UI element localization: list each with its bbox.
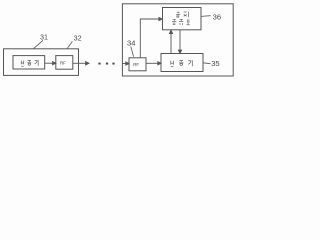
power supply box 36: [163, 8, 202, 30]
svg-text:RF: RF: [133, 62, 139, 67]
left device outer box: [4, 49, 79, 76]
svg-text:36: 36: [213, 12, 221, 21]
hangul text: decoder (box35): [171, 60, 193, 66]
wire: encoder to RF32 arrow: [45, 62, 54, 64]
encoder box 31: [13, 56, 45, 69]
svg-text:RF: RF: [60, 60, 66, 65]
hangul text: power (box36 line1): [176, 12, 188, 17]
wire: box36 down to decoder arrow: [179, 30, 181, 51]
wire: into RF34 arrow: [122, 63, 126, 65]
RF box 32: [56, 56, 73, 70]
hangul text: encoder (box31): [21, 60, 38, 66]
wire: RF34 to decoder arrow: [146, 62, 159, 64]
wire: RF34 up to box36: [140, 19, 159, 58]
decoder box 35: [161, 54, 203, 72]
label 36: [201, 12, 221, 21]
label 34: [127, 39, 135, 57]
svg-text:31: 31: [40, 32, 48, 41]
svg-text:35: 35: [211, 59, 219, 68]
right device outer box: [122, 4, 233, 76]
dotted radio link: [98, 63, 114, 65]
label 31: [34, 32, 49, 48]
label 35: [203, 59, 220, 68]
svg-text:34: 34: [127, 39, 135, 48]
svg-text:32: 32: [74, 34, 82, 43]
wire: decoder up to box36 arrow: [170, 33, 172, 54]
label 32: [67, 34, 82, 49]
wire: RF32 out arrow: [73, 62, 87, 64]
RF box 34: [129, 58, 146, 71]
hangul text: supply (box36 line2): [172, 19, 190, 25]
